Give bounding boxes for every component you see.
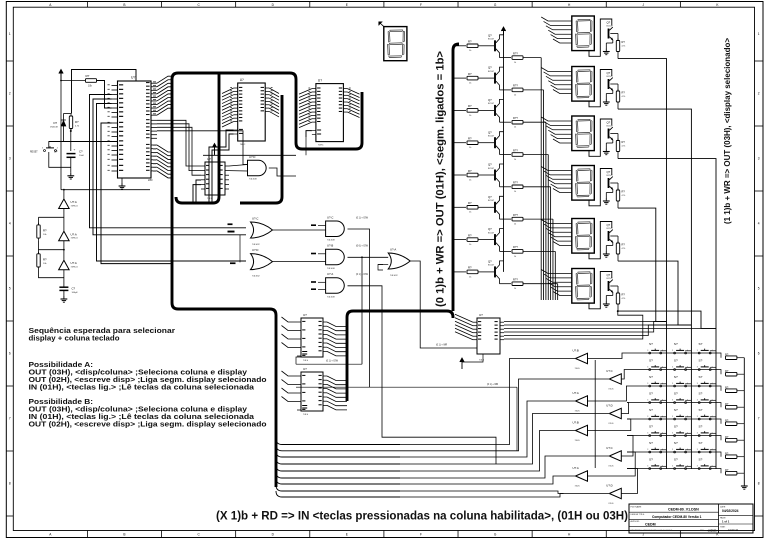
buffer U?:B output wire staircase to bundle line 1 xyxy=(400,359,576,445)
svg-text:R?: R? xyxy=(622,190,626,194)
svg-text:4.7k: 4.7k xyxy=(622,145,626,147)
bus entry fan: U11 left pins xyxy=(455,314,473,340)
svg-text:3: 3 xyxy=(647,466,648,468)
svg-text:74LS32: 74LS32 xyxy=(390,275,398,277)
push button S22 xyxy=(649,468,651,470)
transistor Q12 digit driver xyxy=(608,79,610,89)
svg-text:Q?: Q? xyxy=(607,170,611,174)
buffer U?:B input wire to keypad row 5 xyxy=(588,419,631,431)
latch U3 (74HC573) body+pins xyxy=(316,84,344,142)
buffer U?:B output wire staircase to bundle line 5 xyxy=(400,431,576,472)
wires: U6:D inputs xyxy=(229,165,248,167)
bus: segment-driver bus vertical at right with top corner xyxy=(453,44,459,311)
svg-text:BC547: BC547 xyxy=(488,168,495,170)
svg-text:3: 3 xyxy=(697,383,698,385)
wire: clock chain top xyxy=(64,189,150,191)
bus entry fan: U10 right pins to bus xyxy=(327,376,347,410)
svg-text:S?: S? xyxy=(674,359,678,363)
svg-text:3: 3 xyxy=(672,466,673,468)
svg-text:74LS: 74LS xyxy=(303,360,309,362)
svg-text:E: E xyxy=(346,3,348,7)
svg-text:S?: S? xyxy=(699,392,703,396)
keypad row 2 pull resistor (horizontal) xyxy=(716,370,721,375)
vertical service wire in buffer zone xyxy=(594,360,596,468)
svg-text:U?: U? xyxy=(479,313,483,317)
svg-text:4.7k: 4.7k xyxy=(622,195,626,197)
svg-text:R?: R? xyxy=(468,201,472,205)
svg-text:10:07:42: 10:07:42 xyxy=(728,528,739,532)
transistor Q5 BC547 (segment driver) xyxy=(494,170,496,181)
svg-text:C?: C? xyxy=(72,286,76,290)
resistor R28 emitter xyxy=(512,282,523,286)
display DS5 common wire xyxy=(589,222,612,259)
svg-text:R?: R? xyxy=(468,104,472,108)
base resistor R33 4.7k xyxy=(610,133,618,135)
CPU U1 left pin name labels xyxy=(108,84,124,171)
push button S20 xyxy=(674,451,676,453)
svg-text:74LS: 74LS xyxy=(608,423,614,425)
svg-text:74LS08: 74LS08 xyxy=(327,297,335,299)
svg-text:R?: R? xyxy=(468,40,472,44)
text block: sequencia esperada xyxy=(29,326,267,429)
keypad row 6 pull resistor (horizontal) xyxy=(716,436,721,441)
digit driver ground xyxy=(612,40,614,43)
svg-text:R??: R?? xyxy=(513,116,518,120)
display DS4 common wire xyxy=(589,169,612,206)
svg-text:BC547: BC547 xyxy=(607,76,614,78)
input buffer U?:C row 6 xyxy=(609,451,621,462)
keypad row 1 pull resistor (horizontal) xyxy=(716,353,721,358)
svg-text:R?: R? xyxy=(622,243,626,247)
wire: U7:B/OR U8 output down xyxy=(361,257,363,364)
7-segment display DS5 xyxy=(572,219,595,254)
svg-text:7: 7 xyxy=(9,417,11,421)
U11 power arrow xyxy=(462,354,483,369)
AND gate U7:A xyxy=(326,278,345,294)
svg-text:R?: R? xyxy=(725,419,729,423)
svg-text:S?: S? xyxy=(54,150,58,154)
svg-text:3: 3 xyxy=(672,383,673,385)
wire: vcc rail down to clock buffers xyxy=(60,81,62,190)
buffer U?:D input wire to keypad row 8 xyxy=(621,469,637,494)
bus entry fan: U2 right pins xyxy=(269,88,279,117)
ground below C1 xyxy=(70,173,72,176)
bus entry fan: U10 left pins from bus xyxy=(282,371,298,402)
push button S1 RESET xyxy=(48,142,50,149)
wire: AND U7:C output down xyxy=(348,229,370,387)
segment bus: 8 vertical lines to displays xyxy=(541,58,557,300)
svg-text:4: 4 xyxy=(758,222,760,226)
keypad rail ground xyxy=(743,483,745,486)
keypad buffer IC U10 body+pins xyxy=(301,372,323,411)
keypad row 6 wire xyxy=(627,435,716,437)
keypad row 4 wire xyxy=(627,402,716,404)
svg-text:Q?: Q? xyxy=(488,98,492,102)
svg-text:S?: S? xyxy=(699,408,703,412)
transistor Q14 digit driver xyxy=(608,178,610,188)
wire: AND U7:A output down xyxy=(348,286,497,464)
svg-text:R?: R? xyxy=(622,91,626,95)
svg-text:74HC: 74HC xyxy=(240,144,246,146)
wire: AND U7:B out to OR U8:A in xyxy=(348,256,389,258)
svg-text:D?: D? xyxy=(54,121,58,125)
title block frame xyxy=(629,504,753,533)
push button S19 xyxy=(649,451,651,453)
wire: OR U8:A output down to keypad xyxy=(410,261,477,348)
segment driver row 8: base wire xyxy=(453,271,466,273)
return line bundle from buffers to data bus xyxy=(276,439,400,498)
svg-text:2: 2 xyxy=(9,92,11,96)
resistor R18 base (1k) xyxy=(467,270,478,274)
svg-text:(X 1)b + RD => IN <teclas pres: (X 1)b + RD => IN <teclas pressionadas n… xyxy=(216,509,628,523)
bundle line 9 tail xyxy=(400,494,564,498)
svg-text:S?: S? xyxy=(649,441,653,445)
svg-text:S?: S? xyxy=(674,375,678,379)
svg-text:1k: 1k xyxy=(514,127,516,129)
buffer U?:A output wire staircase to bundle line 7 xyxy=(400,476,576,484)
resistor R24 emitter xyxy=(512,153,523,157)
push button S24 xyxy=(698,468,700,470)
svg-text:(0 1) + IOW: (0 1) + IOW xyxy=(356,217,369,219)
svg-text:5: 5 xyxy=(9,287,11,291)
svg-text:74LS: 74LS xyxy=(575,440,581,442)
svg-text:U?:B: U?:B xyxy=(573,348,579,352)
svg-text:74HCU: 74HCU xyxy=(71,205,79,207)
keypad column verticals xyxy=(666,59,668,469)
svg-text:(0 6) + IOW: (0 6) + IOW xyxy=(356,246,369,248)
svg-text:Q?: Q? xyxy=(607,20,611,24)
svg-text:4.7k: 4.7k xyxy=(622,248,626,250)
buffer U?:A input wire to keypad row 7 xyxy=(588,452,636,476)
svg-text:74LS08: 74LS08 xyxy=(327,240,335,242)
svg-text:3: 3 xyxy=(697,416,698,418)
svg-text:U?:A: U?:A xyxy=(71,261,77,265)
bus: latch U2 right bus branch xyxy=(240,95,282,203)
bus entry fan: U9 left pins from bus xyxy=(282,317,298,348)
svg-text:R?: R? xyxy=(468,72,472,76)
svg-text:R?: R? xyxy=(86,74,90,78)
svg-text:S?: S? xyxy=(674,441,678,445)
resistor R3 vertical (clock) xyxy=(64,113,72,115)
svg-text:R?: R? xyxy=(468,169,472,173)
bus entry fan: CPU data pins to bus xyxy=(157,145,171,178)
wire: OR U4:C output to AND U7:C input xyxy=(273,229,326,231)
svg-text:R??: R?? xyxy=(513,84,518,88)
svg-text:U?:C: U?:C xyxy=(606,446,612,450)
collector rail vertical for segment drivers xyxy=(503,35,505,272)
display DS6 common wire xyxy=(589,272,612,309)
svg-text:U?:A: U?:A xyxy=(390,247,396,251)
svg-text:5: 5 xyxy=(758,287,760,291)
junction dot on clock net xyxy=(70,130,72,132)
svg-text:7: 7 xyxy=(758,417,760,421)
svg-text:100pF: 100pF xyxy=(72,292,79,294)
input buffer U?:D row 4 xyxy=(609,408,621,419)
svg-text:BC547: BC547 xyxy=(488,39,495,41)
svg-text:U?: U? xyxy=(207,157,211,161)
display DS2 common wire xyxy=(589,70,612,107)
svg-text:U?:D: U?:D xyxy=(606,403,612,407)
CPU control wires to decoder U5 and gate U6:D xyxy=(157,120,201,166)
svg-text:R?: R? xyxy=(468,137,472,141)
svg-text:74HC: 74HC xyxy=(318,145,324,147)
select wire display6 join column3 xyxy=(618,311,716,328)
resistor R12 base (1k) xyxy=(467,76,478,80)
wire: horizontal into CPU pins at y141.5 xyxy=(49,141,118,143)
svg-text:BC547: BC547 xyxy=(488,265,495,267)
buffer U?:C input wire to keypad row 2 xyxy=(621,370,627,380)
wire: emitter resistor to segment bus line 4 xyxy=(523,154,548,156)
push button S13 xyxy=(649,418,651,420)
svg-text:U?:A: U?:A xyxy=(327,272,333,276)
resistor R16 base (1k) xyxy=(467,206,478,210)
7-segment display DS3 xyxy=(572,116,595,151)
push button S5 xyxy=(674,369,676,371)
svg-text:U?:B: U?:B xyxy=(327,244,333,248)
svg-text:Q?: Q? xyxy=(488,130,492,134)
capacitor C1 polarized (reset) xyxy=(67,153,76,155)
svg-text:3: 3 xyxy=(9,157,11,161)
resistor R23 emitter xyxy=(512,120,523,124)
buffer U?:C input wire to keypad row 6 xyxy=(621,436,633,457)
svg-text:3: 3 xyxy=(672,449,673,451)
digit driver ground xyxy=(612,189,614,192)
svg-text:U?:D: U?:D xyxy=(252,248,258,252)
power arrow on driver collector rail xyxy=(503,29,505,36)
svg-text:S?: S? xyxy=(649,392,653,396)
buffer U?:C output wire staircase to bundle line 6 xyxy=(400,456,609,478)
svg-text:S?: S? xyxy=(674,458,678,462)
svg-text:1k: 1k xyxy=(514,62,516,64)
display DS5 left pin fan xyxy=(541,220,572,246)
push button S23 xyxy=(674,468,676,470)
wire: CPU pin to bus (IORQ) xyxy=(101,123,171,264)
bus: main address/data bus loop around CPU and latches xyxy=(172,73,362,487)
resistor R25 emitter xyxy=(512,185,523,189)
display DS3 common wire xyxy=(589,119,612,156)
svg-text:4.7k: 4.7k xyxy=(622,45,626,47)
AND gate U7:B xyxy=(326,249,345,264)
keypad row 5 wire xyxy=(627,418,716,420)
junction dots xyxy=(60,80,62,82)
bus entry fan: U3 left pins xyxy=(299,89,312,128)
keypad row 7 pull resistor (horizontal) xyxy=(716,452,721,457)
keypad row 5 pull resistor (horizontal) xyxy=(716,419,721,424)
svg-text:6: 6 xyxy=(9,352,11,356)
resistor R14 base (1k) xyxy=(467,141,478,145)
transistor Q8 BC547 (segment driver) xyxy=(494,266,496,277)
input buffer U?:C row 2 xyxy=(609,374,621,385)
svg-text:S?: S? xyxy=(674,408,678,412)
resistor R2 horizontal (reset pull-up) xyxy=(86,79,97,83)
push button S4 xyxy=(649,369,651,371)
svg-text:74LS: 74LS xyxy=(608,503,614,505)
transistor Q13 digit driver xyxy=(608,129,610,139)
base resistor R34 4.7k xyxy=(610,182,618,184)
svg-text:R?: R? xyxy=(622,140,626,144)
svg-text:R??: R?? xyxy=(513,181,518,185)
segment driver row 7: base wire xyxy=(453,239,466,241)
svg-text:3: 3 xyxy=(672,367,673,369)
svg-text:3: 3 xyxy=(697,350,698,352)
svg-text:BC547: BC547 xyxy=(607,26,614,28)
svg-text:R?: R? xyxy=(468,266,472,270)
select wire display5 join column2 xyxy=(618,261,691,325)
svg-text:R?: R? xyxy=(725,435,729,439)
svg-text:74LS08: 74LS08 xyxy=(249,179,257,181)
svg-text:R?: R? xyxy=(725,386,729,390)
digit select bundle 6 lines from U11 to keypad columns xyxy=(504,320,667,322)
wire: emitter resistor to segment bus line 6 xyxy=(523,218,553,220)
svg-text:Q?: Q? xyxy=(607,71,611,75)
keypad row 1 wire xyxy=(627,352,716,354)
CPU U1 left pin stubs xyxy=(112,86,118,172)
segment driver row 1: base wire xyxy=(453,45,466,47)
svg-text:U?: U? xyxy=(318,79,322,83)
svg-text:74LS08: 74LS08 xyxy=(327,268,335,270)
svg-text:U?:A: U?:A xyxy=(71,232,77,236)
svg-text:OUT (02H), <escreve disp> ;Lig: OUT (02H), <escreve disp> ;Liga segm. di… xyxy=(29,420,267,429)
wire: long enable to buffers right xyxy=(296,386,517,388)
push button S1 xyxy=(649,352,651,354)
svg-text:1k: 1k xyxy=(514,94,516,96)
bus entry fan: U9 right pins to bus xyxy=(327,322,347,356)
transistor Q6 BC547 (segment driver) xyxy=(494,202,496,213)
bus entry fan: CPU address pins to bus xyxy=(157,76,171,115)
buffer U?:D output wire staircase to bundle line 8 xyxy=(400,491,609,494)
buffer U?:D input wire to keypad row 4 xyxy=(621,403,628,414)
push button S8 xyxy=(674,385,676,387)
svg-text:1k: 1k xyxy=(514,224,516,226)
svg-text:Z80: Z80 xyxy=(148,178,153,182)
svg-text:R?: R? xyxy=(725,402,729,406)
svg-text:(0 1)b + WR => OUT (01H), <seg: (0 1)b + WR => OUT (01H), <segm. ligados… xyxy=(434,51,446,307)
svg-text:4: 4 xyxy=(9,222,11,226)
vertical link between OR gates xyxy=(239,235,241,262)
svg-text:R?: R? xyxy=(725,369,729,373)
digit driver ground xyxy=(612,292,614,295)
svg-text:3: 3 xyxy=(647,400,648,402)
svg-text:S?: S? xyxy=(649,342,653,346)
wires: U5 lower-left pins to bus xyxy=(196,180,201,203)
push button S11 xyxy=(674,402,676,404)
buffer U?:C output wire staircase to bundle line 2 xyxy=(400,379,609,451)
resistor R26 emitter xyxy=(512,217,523,221)
svg-text:74LS: 74LS xyxy=(303,414,309,416)
svg-text:RESET: RESET xyxy=(30,152,38,154)
svg-text:74HCU: 74HCU xyxy=(71,238,79,240)
svg-text:BC547: BC547 xyxy=(607,278,614,280)
svg-text:R?: R? xyxy=(75,120,79,124)
svg-text:8: 8 xyxy=(9,482,11,486)
7-segment display DS4 xyxy=(572,166,595,201)
svg-text:U?:D: U?:D xyxy=(249,155,255,159)
svg-text:BC547: BC547 xyxy=(607,228,614,230)
wire: emitter resistor to segment bus line 7 xyxy=(523,250,555,252)
svg-text:R?: R? xyxy=(622,40,626,44)
input buffer U?:A row 3 xyxy=(576,396,588,407)
svg-text:3: 3 xyxy=(647,383,648,385)
svg-text:AUTHOR:: AUTHOR: xyxy=(631,520,640,523)
svg-text:(0 1) + WR: (0 1) + WR xyxy=(436,345,448,347)
input buffer U?:B row 1 xyxy=(576,353,588,364)
svg-text:R?: R? xyxy=(725,468,729,472)
wire: CPU pin to OR gate U4:C input B xyxy=(93,99,246,235)
svg-text:(1 1)b + WR => OUT (03H), <dis: (1 1)b + WR => OUT (03H), <display selec… xyxy=(722,38,732,224)
display DS2 left pin fan xyxy=(541,68,572,94)
bus: latch U2 left bus branch xyxy=(176,73,219,203)
svg-text:R?: R? xyxy=(725,353,729,357)
svg-text:BC547: BC547 xyxy=(488,103,495,105)
push button S18 xyxy=(698,435,700,437)
svg-text:3: 3 xyxy=(647,416,648,418)
svg-text:04/02/2024: 04/02/2024 xyxy=(722,509,739,513)
inverter U3:A (osc) #1 xyxy=(63,190,65,199)
svg-text:BC547: BC547 xyxy=(488,200,495,202)
transistor Q1 BC547 (segment driver) xyxy=(494,40,496,51)
svg-text:3: 3 xyxy=(758,157,760,161)
wire: emitter resistor to segment bus line 1 xyxy=(523,57,541,59)
OR gate U4:D xyxy=(251,254,273,270)
svg-text:<NONE>: <NONE> xyxy=(707,528,718,532)
svg-text:R??: R?? xyxy=(513,278,518,282)
7-segment display DS6 xyxy=(572,269,595,304)
keypad row 4 pull resistor (horizontal) xyxy=(716,403,721,408)
display DS6 left pin fan xyxy=(541,270,572,296)
transistor Q15 digit driver xyxy=(608,231,610,241)
svg-text:S?: S? xyxy=(699,458,703,462)
svg-text:Computador CEDM-80 Versão 1: Computador CEDM-80 Versão 1 xyxy=(652,515,702,519)
segment driver row 4: base wire xyxy=(453,142,466,144)
svg-text:8: 8 xyxy=(758,482,760,486)
svg-text:74LS32: 74LS32 xyxy=(252,276,260,278)
wire: CPU pin to OR gate U4:D input A xyxy=(97,104,247,262)
ground below C2 xyxy=(63,290,65,296)
buffer U?:A input wire to keypad row 3 xyxy=(588,386,628,401)
transistor Q16 digit driver xyxy=(608,281,610,291)
svg-text:B: B xyxy=(123,533,125,537)
svg-text:S?: S? xyxy=(699,441,703,445)
resistor R15 base (1k) xyxy=(467,173,478,177)
svg-text:74LS32: 74LS32 xyxy=(252,244,260,246)
bus entry fan: U3 right pins xyxy=(347,89,359,118)
bus entry fan: U2 left pins xyxy=(222,88,234,127)
resistor R13 base (1k) xyxy=(467,109,478,113)
display DS1 left pin fan xyxy=(541,17,572,43)
inverter U3:A (osc) #2 xyxy=(63,209,65,232)
svg-text:Q?: Q? xyxy=(488,227,492,231)
svg-text:U?: U? xyxy=(240,78,244,82)
input buffer U?:D row 8 xyxy=(609,488,621,499)
svg-text:3: 3 xyxy=(672,350,673,352)
keypad buffer IC U9 body+pins xyxy=(301,318,323,357)
svg-text:S?: S? xyxy=(674,425,678,429)
push button S21 xyxy=(698,451,700,453)
svg-text:U?:C: U?:C xyxy=(606,369,612,373)
push button S7 xyxy=(649,385,651,387)
svg-text:10uF: 10uF xyxy=(79,155,85,157)
svg-text:Q?: Q? xyxy=(607,273,611,277)
CPU U1 right pin name labels xyxy=(146,81,156,171)
svg-text:3: 3 xyxy=(697,449,698,451)
push button S14 xyxy=(674,418,676,420)
svg-text:4.7k: 4.7k xyxy=(622,96,626,98)
svg-text:REV:: REV: xyxy=(700,530,705,532)
svg-text:TIME:: TIME: xyxy=(720,526,726,528)
svg-text:(0 1) + WR: (0 1) + WR xyxy=(487,384,499,386)
svg-text:R?: R? xyxy=(468,233,472,237)
svg-text:F: F xyxy=(420,533,422,537)
